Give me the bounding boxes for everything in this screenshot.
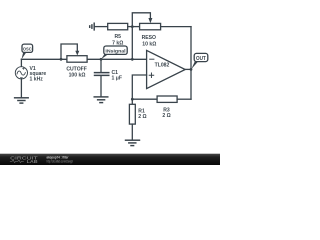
svg-text:RESO: RESO: [142, 35, 156, 41]
footer text credits: [47, 156, 74, 164]
svg-text:1 kHz: 1 kHz: [30, 77, 44, 83]
flag INsignal: [101, 46, 127, 59]
svg-text:2 Ω: 2 Ω: [162, 113, 170, 119]
svg-text:100 kΩ: 100 kΩ: [69, 73, 86, 79]
node junction R1/R3: [131, 98, 134, 101]
capacitor C1: [95, 59, 109, 96]
label R1 value: [138, 108, 146, 120]
potentiometer CUTOFF body: [67, 56, 87, 63]
svg-text:INsignal: INsignal: [105, 48, 126, 54]
svg-text:1 μF: 1 μF: [112, 76, 122, 82]
wire R5 to RESO: [128, 26, 140, 28]
potentiometer CUTOFF wiper arrow: [75, 51, 79, 56]
wire RESO to feedback column: [161, 26, 191, 28]
resistor R1 body: [129, 99, 135, 140]
node junction C1 tap: [100, 58, 103, 61]
svg-text:R5: R5: [114, 34, 121, 40]
label V1 value: [30, 66, 47, 83]
label R5 value: [112, 34, 123, 47]
svg-text:http://circuitlab.com/c6evjqh: http://circuitlab.com/c6evjqh: [47, 159, 74, 163]
svg-text:OUT: OUT: [196, 56, 207, 62]
wire main signal bus: [21, 58, 146, 60]
svg-text:CUTOFF: CUTOFF: [66, 66, 87, 72]
wire op-amp output stub: [185, 68, 191, 70]
svg-text:TL082: TL082: [155, 63, 170, 69]
flag OSC: [22, 44, 33, 59]
svg-text:2 Ω: 2 Ω: [138, 114, 146, 120]
logo CircuitLab: [10, 155, 38, 164]
node junction R5/RESO: [131, 25, 134, 28]
wire ground to R5: [94, 26, 108, 28]
ground at R1: [126, 140, 140, 145]
ground at C1: [94, 97, 108, 103]
potentiometer RESO body: [140, 23, 161, 29]
svg-text:LAB: LAB: [27, 159, 38, 164]
svg-text:7 kΩ: 7 kΩ: [112, 40, 123, 46]
ground at V1: [15, 98, 29, 103]
svg-text:OSC: OSC: [23, 47, 32, 53]
wire R3 to feedback column: [177, 98, 191, 100]
label RESO value: [142, 35, 157, 48]
resistor R3 body: [157, 96, 177, 102]
source V1: [15, 59, 27, 97]
wire wiper loop RESO: [132, 13, 150, 27]
wire feedback column: [190, 27, 192, 100]
wire inverting node riser: [131, 27, 133, 60]
wire junction to R3: [132, 98, 157, 100]
potentiometer RESO wiper arrow: [148, 18, 152, 23]
ground rotated at R5: [90, 23, 95, 30]
label CUTOFF value: [66, 66, 87, 78]
node junction output: [190, 68, 193, 71]
wire noninverting input: [132, 75, 146, 99]
label R3 value: [162, 107, 170, 119]
footer bar: [0, 154, 220, 165]
flag OUT: [191, 53, 208, 69]
node junction inverting input: [131, 58, 134, 61]
op-amp U1 TL082: [147, 50, 186, 88]
node junction V1/wiper: [60, 58, 63, 61]
wire wiper loop CUTOFF: [61, 44, 77, 59]
svg-text:10 kΩ: 10 kΩ: [142, 41, 156, 47]
label C1 value: [112, 70, 122, 81]
resistor R5 body: [108, 23, 128, 29]
